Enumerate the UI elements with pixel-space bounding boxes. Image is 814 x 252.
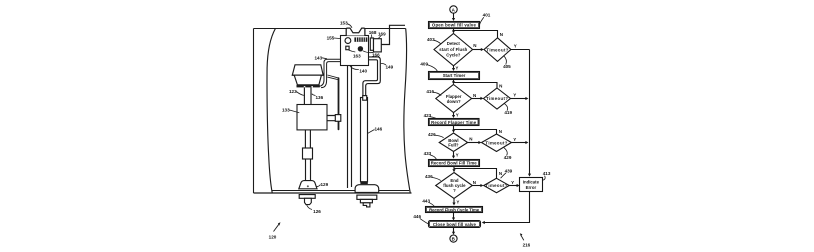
float rod arm from tube [327, 75, 338, 80]
wire d7 Y to box5 [453, 199, 455, 203]
leader 166 [363, 51, 374, 53]
svg-text:Y: Y [511, 180, 514, 185]
wire d7 N to d8 [472, 185, 481, 187]
wire d4 Y to rail [511, 98, 526, 100]
loopback row3 [454, 130, 497, 135]
flange center mark [307, 185, 309, 187]
connector circle A [450, 6, 457, 13]
wire box6 to circle B [453, 228, 455, 233]
svg-text:419: 419 [504, 110, 512, 115]
leader 129 [316, 185, 321, 187]
svg-text:Y: Y [455, 66, 458, 71]
wire from connector over tank rim [381, 25, 405, 44]
overflow tube top opening [363, 96, 367, 101]
box6 Close bowl fill valve [429, 221, 481, 228]
diamond d8 Timeout [484, 178, 510, 192]
svg-text:Open bowl fill valve: Open bowl fill valve [432, 23, 477, 28]
leader 155 [334, 37, 341, 40]
svg-text:Timeout?: Timeout? [486, 96, 508, 101]
svg-text:N: N [473, 180, 476, 185]
overflow tube 146 [361, 98, 368, 182]
svg-text:Record Bowl Fill Time: Record Bowl Fill Time [431, 161, 478, 166]
svg-text:N: N [473, 43, 476, 48]
svg-text:403: 403 [427, 37, 435, 42]
svg-text:Start Timer: Start Timer [443, 73, 466, 78]
flush valve stub [360, 199, 372, 202]
svg-text:Y: Y [456, 112, 459, 117]
svg-text:N: N [499, 171, 502, 176]
svg-text:Y: Y [513, 137, 516, 142]
loopback row1 [454, 31, 498, 38]
svg-text:140: 140 [359, 68, 367, 73]
connector small block [370, 38, 373, 50]
valve shank tube [306, 159, 311, 180]
svg-text:N: N [500, 32, 503, 37]
connector big block 168 169 [374, 39, 382, 52]
svg-text:426: 426 [428, 132, 436, 137]
fill valve stem tube [304, 87, 311, 104]
wire d8 Y to error box [509, 185, 517, 187]
leader 153 [347, 24, 352, 28]
diamond d2 Timeout [484, 38, 511, 62]
leader 123 [296, 92, 304, 96]
leader 133 [290, 110, 300, 113]
svg-text:Error: Error [526, 185, 537, 190]
svg-text:129: 129 [320, 182, 328, 187]
refill tube 149 inner [363, 60, 378, 96]
svg-text:N: N [499, 83, 502, 88]
diamond d5 Bowl Full [439, 133, 467, 152]
svg-text:146: 146 [374, 127, 382, 132]
flush valve lock nut [357, 195, 377, 199]
fill valve lock nut [299, 195, 315, 199]
valve lower tube [305, 130, 310, 148]
wire A to box1 [453, 13, 455, 18]
svg-text:436: 436 [425, 174, 433, 179]
tank rim top line [254, 28, 406, 30]
arm clamp [335, 115, 341, 122]
wire d5 Y to box4 [453, 152, 455, 157]
tank floor lower line [254, 192, 412, 194]
box Indicate Error [520, 178, 543, 192]
svg-text:N: N [499, 129, 502, 134]
diamond d1 Detect start of Flush Cycle [434, 34, 473, 66]
box1 Open bowl fill valve [429, 22, 480, 29]
leader 126 [307, 205, 313, 210]
svg-text:Y: Y [456, 199, 459, 204]
leader 140 [350, 66, 359, 70]
wire d3 Y to box3 [453, 113, 455, 116]
svg-text:Cycle?: Cycle? [446, 52, 460, 57]
svg-text:Full?: Full? [448, 143, 459, 148]
svg-text:Y: Y [513, 92, 516, 97]
tank right broken wall [404, 29, 410, 193]
svg-text:166: 166 [372, 52, 380, 57]
loopback row2 [454, 83, 498, 89]
wire d5 N to d6 [468, 142, 479, 144]
svg-text:N: N [469, 137, 472, 142]
tank left wall frame [253, 29, 255, 194]
svg-text:409: 409 [420, 61, 428, 66]
fill valve cap 143 top [292, 65, 323, 75]
sensor probe to flush valve [348, 66, 352, 188]
svg-text:149: 149 [385, 64, 393, 69]
wire d3 N to d4 [472, 98, 481, 100]
svg-text:Timeout?: Timeout? [485, 183, 507, 188]
svg-text:Detect: Detect [447, 41, 461, 46]
float cup 133 body [297, 105, 327, 130]
overflow tube dark collar [360, 182, 367, 184]
tank floor upper line [272, 190, 410, 192]
svg-text:136: 136 [315, 95, 323, 100]
svg-text:?: ? [453, 188, 456, 193]
svg-text:Y: Y [514, 44, 517, 49]
box5 Record Flush Cycle Time [426, 207, 483, 213]
svg-text:Y: Y [456, 153, 459, 158]
diamond d7 End flush cycle [436, 173, 473, 199]
svg-text:Close bowl fill valve: Close bowl fill valve [433, 222, 477, 227]
diamond d6 Timeout [482, 134, 512, 152]
float cup arm [327, 116, 341, 121]
svg-text:155: 155 [327, 36, 335, 41]
svg-text:Timeout?: Timeout? [485, 141, 507, 146]
svg-text:Timeout?: Timeout? [486, 47, 508, 52]
leader 149 [381, 63, 386, 65]
indicator dot 166 [358, 46, 363, 51]
box4 Record Bowl Fill Time [429, 160, 480, 167]
fill valve cap shelf [292, 74, 324, 76]
leader 136 [312, 94, 316, 96]
svg-text:123: 123 [289, 89, 297, 94]
svg-text:start of Flush: start of Flush [439, 47, 467, 52]
leader 168 [371, 35, 373, 38]
loopback row4 [454, 169, 497, 179]
box2 Start Timer [429, 72, 480, 80]
svg-text:413: 413 [543, 171, 551, 176]
svg-text:401: 401 [483, 13, 491, 18]
pointer 216 [521, 235, 524, 240]
flush valve tab [363, 203, 370, 207]
wire box5 to box6 [453, 213, 455, 218]
refill tube 149 outer [366, 57, 381, 96]
wire d2 Y to rail [511, 49, 530, 51]
microphone 155 circle [345, 38, 351, 44]
wire d1 Y to box2 [453, 66, 455, 69]
wire d6 Y to rail [511, 142, 525, 144]
svg-text:120: 120 [269, 234, 277, 239]
svg-text:216: 216 [523, 243, 531, 248]
control box 140 [341, 36, 369, 66]
svg-text:down?: down? [447, 99, 461, 104]
arrow 120 [274, 224, 280, 232]
wire box1 to d1 [453, 29, 455, 32]
vent grille [354, 37, 367, 41]
svg-text:429: 429 [504, 155, 512, 160]
sensor square 163 [346, 46, 349, 50]
sensing tube 143 from cap to box [319, 59, 341, 86]
tank left broken wall [267, 29, 275, 193]
svg-text:153: 153 [340, 21, 348, 26]
fill valve cap lower taper [294, 75, 321, 85]
svg-text:163: 163 [353, 53, 361, 58]
svg-text:N: N [473, 93, 476, 98]
wire box2 to d3 [453, 80, 455, 82]
fill valve base flange 129 [299, 181, 317, 189]
float rod 136 vertical [338, 78, 340, 129]
svg-text:416: 416 [426, 89, 434, 94]
bracket 153 on rim [346, 28, 365, 35]
svg-text:Record Flush Cycle Time: Record Flush Cycle Time [429, 207, 480, 212]
svg-text:423: 423 [424, 113, 432, 118]
svg-text:433: 433 [424, 151, 432, 156]
fill valve inlet stub threads [305, 198, 312, 204]
svg-text:133: 133 [282, 108, 290, 113]
leader 169 [378, 35, 381, 38]
wire d1 N to d2 [473, 49, 482, 51]
leader 163 [349, 50, 356, 52]
svg-text:405: 405 [503, 64, 511, 69]
valve coupling [303, 148, 313, 159]
connector circle B [450, 235, 457, 242]
diamond d4 Timeout [484, 88, 511, 109]
flush valve flange [355, 185, 379, 193]
svg-text:143: 143 [314, 55, 322, 60]
svg-text:169: 169 [378, 31, 386, 36]
wire box4 to d7 [453, 167, 455, 170]
diamond d3 Flapper down [436, 85, 472, 113]
leader 143 [322, 58, 327, 59]
svg-text:Record Flapper Time: Record Flapper Time [431, 120, 477, 125]
box3 Record Flapper Time [429, 119, 480, 126]
svg-text:126: 126 [313, 209, 321, 214]
fill valve seal black band [297, 85, 320, 88]
wire error box to box6 [484, 192, 529, 223]
leader 146 [368, 130, 375, 134]
wire box3 to d5 [453, 126, 455, 131]
error rail [529, 50, 531, 175]
svg-text:168: 168 [369, 30, 377, 35]
